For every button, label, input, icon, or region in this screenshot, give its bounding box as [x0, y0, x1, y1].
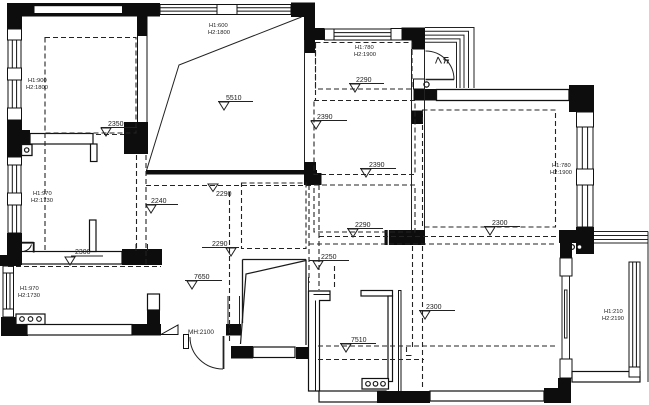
south door arc [190, 337, 223, 369]
svg-text:H1:780: H1:780 [552, 163, 571, 169]
top window W3 [237, 5, 291, 15]
hall dashed v3 [44, 133, 46, 253]
bedroom2 bottom wall black left [377, 391, 430, 403]
dim 2300 hall [65, 249, 103, 265]
dining top wall step black [314, 28, 325, 40]
window left W-b [8, 80, 21, 108]
living right wall black upper [304, 15, 315, 53]
bedroom2 dashed h359 [318, 359, 424, 361]
dim 5510 [218, 95, 253, 110]
dim 7510 [340, 337, 376, 352]
meter circle [25, 148, 29, 152]
balcony right window [629, 262, 640, 367]
left wall black lower [7, 233, 22, 265]
top-left corner wall [7, 3, 125, 17]
vestibule band black left [231, 346, 253, 359]
text H1H2 bedroom2 [550, 163, 572, 176]
svg-text:2250: 2250 [321, 254, 337, 261]
svg-text:H2:1800: H2:1800 [26, 85, 48, 91]
dim 7650 [185, 274, 222, 289]
left wall black upper [7, 3, 22, 29]
hall wall L return [91, 144, 98, 162]
hall band black right [122, 249, 162, 265]
kitchen corner black [1, 317, 28, 336]
svg-text:H2:2190: H2:2190 [602, 316, 624, 322]
entry hinge box [414, 79, 425, 89]
svg-text:2290: 2290 [356, 77, 372, 84]
bath bottom band [319, 391, 386, 402]
window left W-a [8, 40, 21, 68]
top wall window W1 [35, 6, 125, 13]
entry porch steps [425, 28, 474, 89]
dim 2290 mid [347, 222, 383, 237]
dim 2350 [101, 121, 137, 136]
svg-text:2290: 2290 [355, 222, 371, 229]
dim 2290 hall [208, 184, 232, 198]
bedroom2 bottom wall black right [544, 388, 569, 403]
svg-text:2300: 2300 [492, 220, 508, 227]
meter box [22, 145, 33, 156]
dining dashed rect B [314, 101, 415, 175]
window sill box left top [8, 29, 22, 40]
dining top window W4 [334, 29, 391, 40]
threshold triangle [161, 325, 178, 335]
svg-text:H2:1900: H2:1900 [550, 170, 572, 176]
svg-text:H2:1730: H2:1730 [18, 293, 40, 299]
svg-text:MH:2100: MH:2100 [188, 329, 214, 336]
svg-text:H1:970: H1:970 [33, 191, 52, 197]
text H1H2 hall [31, 191, 53, 204]
dining sill box left [325, 29, 335, 40]
entry hinge circle [424, 82, 429, 87]
balcony top wall black [559, 230, 594, 243]
south door leaf [223, 336, 225, 369]
text H1H2 dining [354, 45, 376, 58]
dining dashed rect C [314, 185, 415, 232]
svg-text:H2:1730: H2:1730 [31, 198, 53, 204]
text H1H2 living [208, 23, 230, 36]
dim 2290 dining [349, 77, 384, 92]
living right wall line [304, 40, 306, 163]
balcony bottom band [572, 372, 640, 383]
dim 2300 bedroom low [419, 304, 455, 319]
hall band 2300 [21, 252, 122, 265]
hall dashed h2 [8, 266, 161, 268]
bedroom2 right sill box [577, 112, 594, 127]
corridor dashed pair bottom [309, 243, 556, 245]
closet door leaf diag [241, 261, 307, 345]
window sill box [8, 108, 22, 120]
balcony right sill box [629, 367, 640, 377]
svg-text:2390: 2390 [369, 162, 385, 169]
text H1H2 bedroom1 [26, 78, 48, 91]
svg-text:H2:1900: H2:1900 [354, 52, 376, 58]
kitchen bottom wall black [132, 324, 161, 336]
bedroom2 right window a [577, 127, 593, 169]
bedroom1-living wall black bottom [124, 122, 148, 154]
svg-text:H1:210: H1:210 [604, 309, 623, 315]
hall-dining junction black [385, 230, 426, 245]
bath fixture 3 circles [362, 379, 389, 390]
svg-text:2240: 2240 [151, 198, 167, 205]
left wall black middle [7, 120, 22, 157]
bedroom2 bottom wall band [430, 391, 544, 401]
svg-text:H1:900: H1:900 [28, 78, 47, 84]
entry text [436, 57, 449, 64]
balcony left sill box [560, 258, 572, 276]
hall dashed v0 [136, 155, 138, 250]
south door jamb box [184, 335, 189, 349]
washer circles [570, 245, 575, 250]
wall stub A [90, 220, 97, 252]
svg-text:2390: 2390 [317, 114, 333, 121]
bath bottom black [386, 391, 430, 403]
svg-text:7510: 7510 [351, 337, 367, 344]
dim 2300 bedroom [484, 220, 520, 235]
bedroom2 top wall black left [414, 89, 437, 101]
hall dashed v1 [145, 155, 147, 266]
dining sill box right [391, 29, 402, 41]
window sill box [8, 157, 22, 165]
bedroom2 dashed h346 [318, 345, 556, 347]
dim 2240 [146, 198, 178, 213]
svg-text:2300: 2300 [75, 249, 91, 256]
entry jamb black L [402, 28, 426, 50]
closet room outline [243, 260, 307, 346]
bedroom2 dashed v422 [422, 246, 424, 390]
dim 2250 [309, 254, 349, 269]
balcony left sill box low [560, 359, 572, 378]
balcony left wall black top [560, 241, 572, 258]
dining left dashed v [315, 42, 317, 100]
hall band black left [7, 251, 22, 265]
bath left wall [309, 291, 331, 391]
living right wall black chunk bottom [304, 162, 322, 185]
entry door leaf [426, 79, 455, 81]
vestibule band black right [296, 347, 319, 359]
dining right wall black block [412, 111, 424, 125]
wall stub B outline [148, 294, 160, 310]
entry door arc [426, 51, 455, 80]
top wall black T2 [122, 3, 160, 17]
hall pillar lines [136, 244, 148, 251]
living bottom wall [146, 170, 317, 175]
bath right wall [361, 291, 393, 297]
bath dashed v309 [308, 185, 310, 283]
top window gap box [217, 5, 237, 15]
jamb lines down [228, 296, 240, 324]
south jamb black right [226, 324, 241, 336]
bedroom2 right wall black bottom [576, 227, 594, 254]
bedroom2 top wall band [437, 90, 570, 101]
living diagonal [147, 17, 302, 171]
bath dashed v334 [334, 266, 336, 290]
svg-text:2300: 2300 [426, 304, 442, 311]
bedroom2 dashed v412 [412, 246, 414, 347]
window sill box [8, 193, 22, 205]
window sill box [8, 68, 22, 80]
stove 3 burners [16, 314, 45, 325]
dim 2390 left [311, 114, 347, 129]
dim 2390 mid [360, 162, 396, 177]
opening dashed 2350 [96, 134, 124, 136]
vestibule band white [253, 347, 295, 358]
bedroom2 right window b [577, 185, 593, 227]
top window W2 [160, 5, 217, 15]
svg-text:H1:600: H1:600 [209, 23, 228, 29]
bedroom2 corner black top-right [569, 85, 594, 112]
window left W-d [8, 205, 21, 233]
kitchen left black corner [0, 255, 21, 266]
window left W-c [8, 165, 21, 193]
svg-text:5510: 5510 [226, 95, 242, 102]
corridor dashed pair top [319, 236, 556, 238]
top wall black T3 [291, 3, 315, 18]
kitchen sill box [3, 309, 14, 317]
balcony top rail lines [594, 232, 648, 383]
balcony left wall black bottom [558, 378, 571, 403]
kitchen bottom wall band [27, 325, 132, 336]
dim 2290 hall2 [202, 241, 239, 256]
svg-text:H1:970: H1:970 [20, 286, 39, 292]
bedroom1 dashed rect [45, 38, 136, 134]
balcony sliding door [562, 276, 570, 359]
hall dashed h1 [146, 185, 314, 187]
bedroom2 right sill box [577, 169, 594, 185]
kitchen window [3, 266, 14, 273]
svg-text:H1:780: H1:780 [355, 45, 374, 51]
text H1H2 kitchen [18, 286, 40, 299]
wall stub B black [147, 310, 160, 326]
bath dashed v319 [318, 185, 320, 290]
svg-text:2350: 2350 [108, 121, 124, 128]
svg-text:2290: 2290 [216, 191, 232, 198]
svg-text:7650: 7650 [194, 274, 210, 281]
closet dashed rect [242, 183, 307, 249]
bedroom1-living wall column [138, 16, 148, 124]
svg-text:H2:1800: H2:1800 [208, 30, 230, 36]
dining right wall lines [412, 49, 425, 230]
hall wall 2350 band [7, 130, 30, 145]
hall mini door bracket [22, 242, 34, 253]
bedroom2 dashed rect [423, 110, 556, 227]
dining dashed rect A [316, 43, 413, 90]
svg-text:2290: 2290 [212, 241, 228, 248]
hall dashed v2 [229, 192, 231, 341]
text H1H2 balcony [602, 309, 624, 322]
bedroom1-living wall black top [137, 15, 148, 36]
